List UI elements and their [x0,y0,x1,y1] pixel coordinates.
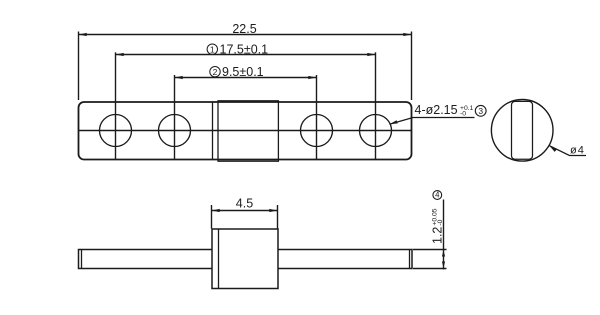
middle element section [218,101,278,161]
hole H1 center line [115,52,117,159]
block inner seam [218,229,220,289]
svg-text:4: 4 [435,191,440,200]
svg-text:4.5: 4.5 [236,197,253,211]
label circled 2 [210,67,220,77]
svg-text:-0: -0 [460,110,466,117]
svg-text:2: 2 [213,67,218,77]
weld seam line [212,102,214,160]
body outline (top view) [79,102,412,160]
arrowheads dim 22.5 [79,33,87,36]
dim 17.5 line [116,54,376,56]
svg-text:-0: -0 [437,219,444,225]
label circled 1 [207,44,217,54]
label 1.2 rotated [430,208,444,244]
arrowheads dim 17.5 [116,53,124,56]
dim 1.2 extension top [413,249,447,251]
arrowheads dim 4.5 [212,209,220,212]
bar right cap line [409,250,411,268]
arrowhead leader o4 [549,146,557,152]
hole H4 center line [375,52,377,159]
dim 4.5 line [212,210,278,212]
svg-text:ø4: ø4 [570,145,585,157]
dim 4.5 extension right [277,205,279,229]
svg-text:4-ø2.15: 4-ø2.15 [415,103,458,117]
side view block [212,229,278,289]
svg-text:1.2: 1.2 [430,227,444,244]
hole H1 [100,115,132,147]
dim 9.5 line [175,77,317,79]
label circled 3 [475,105,486,116]
dim 22.5 extension left [78,32,80,101]
dim 1.2 extension bottom [413,268,447,270]
svg-text:17.5±0.1: 17.5±0.1 [220,42,269,56]
arrowheads dim 1.2 [442,250,445,256]
label circled 4 [433,191,442,200]
hole H3 center line [316,75,318,160]
bar left cap line [81,250,83,268]
detail circle [491,100,553,162]
hole H3 [301,115,333,147]
hole H2 [159,115,191,147]
dim 22.5 extension right [411,32,413,101]
svg-text:22.5: 22.5 [232,22,256,36]
side view bar [79,250,413,269]
dim 4.5 extension left [211,205,213,229]
hole H4 [360,115,392,147]
dim 1.2 line [443,200,445,270]
dim 22.5 line [79,34,412,36]
hole H2 center line [174,75,176,160]
svg-text:3: 3 [478,106,483,116]
leader 4-o2.15 [390,118,475,125]
svg-text:9.5±0.1: 9.5±0.1 [222,65,264,79]
horizontal center line [79,130,411,132]
arrowhead leader 2.15 [390,120,398,124]
arrowheads dim 9.5 [175,76,183,79]
detail slot [512,101,533,159]
leader o4 [549,146,586,156]
svg-text:1: 1 [210,44,215,54]
